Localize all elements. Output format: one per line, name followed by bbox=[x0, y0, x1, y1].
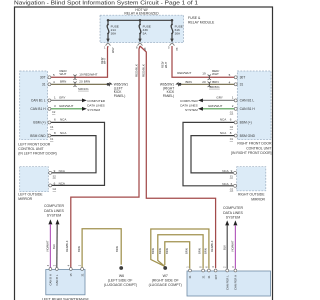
svg-text:FUSE &: FUSE & bbox=[188, 16, 201, 20]
wire NCA BSM GND left loop bbox=[51, 136, 96, 173]
svg-text:SYSTEM: SYSTEM bbox=[87, 108, 100, 112]
wire RED/WHT fuse616 to right door unit 30T bbox=[172, 46, 234, 77]
svg-text:CAN B L: CAN B L bbox=[55, 274, 59, 285]
svg-text:C2: C2 bbox=[52, 110, 56, 114]
wire BLK to right rear sensor bbox=[226, 225, 228, 269]
svg-text:W6: W6 bbox=[119, 274, 124, 278]
svg-text:NCA: NCA bbox=[60, 118, 66, 122]
arrow up VIO/WHT (bottom left) bbox=[48, 219, 52, 224]
svg-text:NCA: NCA bbox=[220, 131, 226, 135]
label GRY 1 (right) bbox=[216, 96, 233, 100]
svg-text:BRN: BRN bbox=[115, 246, 119, 252]
right rear box pin bumps bbox=[189, 269, 237, 272]
svg-text:DATA LINES: DATA LINES bbox=[180, 104, 197, 108]
inline connector on RED/WHT left bbox=[73, 75, 77, 80]
left rear box pin names bbox=[49, 273, 85, 286]
svg-text:A5/8: A5/8 bbox=[111, 48, 115, 54]
svg-text:GRN/WHT: GRN/WHT bbox=[59, 104, 73, 108]
arrow to computer data lines (right, top) bbox=[198, 99, 203, 103]
svg-text:BLK: BLK bbox=[222, 245, 226, 250]
inline connector on RED/WHT right bbox=[208, 75, 212, 80]
wire GRY left CAN B1 L to data-lines arrow bbox=[51, 99, 83, 101]
arrow up BLK (bottom right) bbox=[225, 220, 229, 225]
right rear shortrange radar box bbox=[187, 271, 271, 296]
fuse 214 30A bbox=[107, 20, 109, 39]
wire NCA BSM(+) right loop bbox=[183, 122, 234, 185]
wire RED/BLK pair from fuse 439 (left branch to left rear sensor) bbox=[71, 46, 140, 267]
svg-text:RED/BLK: RED/BLK bbox=[134, 64, 138, 77]
svg-text:BRN: BRN bbox=[151, 248, 155, 254]
svg-text:VIO/WHT: VIO/WHT bbox=[231, 240, 235, 252]
svg-text:[IN RIGHT FRONT DOOR]: [IN RIGHT FRONT DOOR] bbox=[231, 151, 271, 155]
labels 8 NCA (left BSM GND) bbox=[54, 131, 66, 135]
svg-text:SYSTEM: SYSTEM bbox=[226, 215, 240, 219]
fuse 439 5A bbox=[139, 20, 141, 39]
svg-text:CAN B1 H: CAN B1 H bbox=[240, 107, 256, 111]
svg-text:RIGHT FRONT DOOR: RIGHT FRONT DOOR bbox=[237, 142, 272, 146]
left outside mirror box bbox=[20, 167, 49, 192]
wire BRN right splice to right door unit 31 bbox=[181, 83, 234, 85]
wire BLK to left rear sensor bbox=[56, 224, 58, 267]
svg-text:31: 31 bbox=[188, 275, 192, 279]
svg-text:BRN: BRN bbox=[84, 79, 90, 83]
svg-text:RELAY MODULE: RELAY MODULE bbox=[188, 21, 215, 25]
svg-text:(LUGGAGE COMPT): (LUGGAGE COMPT) bbox=[149, 283, 182, 287]
svg-text:RED/WHT: RED/WHT bbox=[84, 72, 98, 76]
svg-text:BRN: BRN bbox=[198, 248, 202, 254]
wire VIO/WHT to left rear sensor bbox=[49, 224, 51, 267]
svg-text:CAN PER H: CAN PER H bbox=[234, 275, 238, 290]
wire BRN right rear sensor inner loop to ground W7 bbox=[165, 242, 190, 269]
fuse 616 arrow bbox=[170, 39, 173, 43]
right front door control unit box bbox=[237, 71, 271, 140]
arrow to computer data lines (left, top) bbox=[82, 99, 87, 103]
ground W7 bbox=[149, 266, 182, 287]
fuse 214 arrow bbox=[106, 39, 109, 43]
svg-text:30A: 30A bbox=[111, 31, 117, 35]
svg-text:MIRROR: MIRROR bbox=[18, 197, 32, 201]
svg-text:31: 31 bbox=[207, 275, 211, 279]
svg-text:RIGHT OUTSIDE: RIGHT OUTSIDE bbox=[238, 193, 265, 197]
svg-text:S30/5X1: S30/5X1 bbox=[209, 85, 220, 89]
svg-text:PANEL): PANEL) bbox=[163, 94, 175, 98]
svg-text:WHT: WHT bbox=[103, 58, 107, 64]
connector pin below fuse 214 bbox=[104, 44, 115, 54]
svg-text:BSM GND: BSM GND bbox=[30, 134, 46, 138]
label right front door control unit bbox=[231, 142, 272, 155]
right mirror pin bumps bbox=[234, 171, 237, 187]
labels 6 NCA (left BSM+) bbox=[54, 118, 66, 122]
svg-text:C4: C4 bbox=[230, 125, 234, 129]
svg-text:RED/BLK: RED/BLK bbox=[210, 240, 214, 252]
label GRN/WHT 2 (right) bbox=[208, 104, 234, 108]
svg-text:31: 31 bbox=[240, 82, 244, 86]
left rear shortrange radar box bbox=[46, 270, 85, 295]
left front door control unit box bbox=[20, 71, 48, 140]
fuse 616 value label bbox=[175, 24, 183, 35]
svg-text:15: 15 bbox=[69, 273, 73, 277]
svg-text:31: 31 bbox=[42, 82, 46, 86]
svg-text:30T: 30T bbox=[214, 274, 218, 279]
arrow to computer data lines (left, bottom) bbox=[82, 107, 87, 111]
right mirror pin labels bbox=[222, 169, 228, 186]
svg-text:BRN: BRN bbox=[77, 246, 81, 252]
fuse 439 arrow bbox=[138, 39, 141, 43]
svg-text:NCA: NCA bbox=[220, 118, 226, 122]
svg-text:BRN: BRN bbox=[184, 248, 188, 254]
connector pin below fuse 616 bbox=[168, 44, 179, 51]
svg-text:G2: G2 bbox=[53, 187, 57, 191]
labels NCA 6 (right BSM+) bbox=[220, 118, 232, 122]
labels RED/WHT 19 RED/WHT 5 (right red row) bbox=[177, 69, 230, 77]
svg-text:G2: G2 bbox=[230, 188, 234, 192]
right outside mirror box bbox=[237, 167, 266, 191]
svg-text:C1: C1 bbox=[50, 137, 54, 141]
ground W6 bbox=[104, 266, 137, 287]
svg-text:COMPUTER: COMPUTER bbox=[223, 206, 244, 210]
text computer data lines system (bottom left) bbox=[44, 204, 65, 217]
svg-text:S30/1X1: S30/1X1 bbox=[78, 87, 89, 91]
svg-text:RELAY A ENERGIZED: RELAY A ENERGIZED bbox=[124, 12, 159, 16]
svg-text:20: 20 bbox=[202, 80, 206, 84]
svg-text:30A: 30A bbox=[175, 31, 181, 35]
wire NCA BSM GND right loop bbox=[191, 136, 234, 173]
text computer data lines system (right mid) bbox=[180, 99, 198, 112]
wire BRN right rear sensor outer loop to ground W7 bbox=[151, 229, 209, 269]
svg-text:GRY: GRY bbox=[216, 96, 222, 100]
fuse 214 value label bbox=[111, 24, 119, 35]
labels 5 RED/WHT 19 RED/WHT (left red row) bbox=[53, 69, 98, 77]
svg-text:GRY: GRY bbox=[59, 96, 65, 100]
wire BRN left rear sensor to ground W6 bbox=[82, 229, 121, 268]
svg-text:31: 31 bbox=[80, 273, 84, 277]
svg-text:19: 19 bbox=[79, 72, 83, 76]
svg-text:S1: S1 bbox=[230, 175, 234, 179]
svg-text:NCA: NCA bbox=[222, 182, 228, 186]
svg-text:CAN B H: CAN B H bbox=[49, 274, 53, 285]
svg-text:RED/BLK: RED/BLK bbox=[65, 240, 69, 252]
svg-text:NCA: NCA bbox=[59, 181, 65, 185]
svg-text:WHT: WHT bbox=[164, 62, 168, 68]
svg-text:WHT: WHT bbox=[212, 72, 219, 76]
arrow up VIO/WHT (bottom right) bbox=[233, 220, 237, 225]
svg-text:G1: G1 bbox=[230, 110, 234, 114]
splice W65/2W1 bbox=[160, 82, 181, 98]
svg-text:NCA: NCA bbox=[222, 169, 228, 173]
svg-text:33: 33 bbox=[175, 48, 179, 51]
left rear box pin bumps bbox=[49, 268, 84, 271]
left rear box pin numbers bbox=[47, 264, 82, 266]
svg-text:CAN B1 L: CAN B1 L bbox=[31, 99, 46, 103]
svg-text:BRN: BRN bbox=[186, 80, 192, 84]
svg-text:Navigation - Blind Spot Inform: Navigation - Blind Spot Information Syst… bbox=[14, 1, 198, 7]
svg-text:RED/BLK: RED/BLK bbox=[142, 64, 146, 77]
wire GRY right CAN B1 L bbox=[202, 99, 234, 101]
wire RED/WHT fuse214 to left door unit pin 30T bbox=[51, 46, 108, 77]
svg-text:CAN B1 H: CAN B1 H bbox=[30, 107, 46, 111]
svg-text:DATA LINES: DATA LINES bbox=[87, 104, 104, 108]
svg-text:VIO/WHT: VIO/WHT bbox=[46, 240, 50, 252]
svg-text:LEFT OUTSIDE: LEFT OUTSIDE bbox=[18, 192, 43, 196]
text computer data lines system (left mid) bbox=[87, 99, 105, 112]
svg-text:C4: C4 bbox=[50, 125, 54, 129]
bus wire inside module bbox=[108, 19, 172, 21]
wire BRN left door unit pin 31 to splice bbox=[51, 83, 107, 85]
svg-text:30T: 30T bbox=[240, 75, 246, 79]
right door unit pin names bbox=[240, 75, 256, 137]
arrow to computer data lines (right, bottom) bbox=[198, 107, 203, 111]
bus junction nodes bbox=[107, 19, 174, 22]
fuse &amp; relay module box bbox=[100, 15, 184, 43]
labels BRN 20 BRN 4 (right brn row) bbox=[186, 80, 231, 85]
svg-text:BRN: BRN bbox=[165, 248, 169, 254]
right rear box pin numbers bbox=[187, 266, 235, 268]
svg-text:SYSTEM: SYSTEM bbox=[185, 108, 198, 112]
inline connector on BRN left bbox=[73, 82, 77, 87]
label right outside mirror bbox=[238, 193, 266, 202]
svg-text:C1: C1 bbox=[230, 137, 234, 141]
svg-text:COMPUTER: COMPUTER bbox=[44, 204, 65, 208]
svg-text:CAN B1 L: CAN B1 L bbox=[240, 99, 255, 103]
svg-text:BRN: BRN bbox=[212, 80, 218, 84]
svg-text:PANEL): PANEL) bbox=[114, 94, 126, 98]
wire GRN/WHT right CAN B1 H bbox=[202, 108, 234, 110]
svg-text:CONTROL UNIT: CONTROL UNIT bbox=[18, 147, 43, 151]
right rear box pin names bbox=[188, 274, 237, 290]
text computer data lines system (bottom right) bbox=[223, 206, 244, 219]
svg-text:BLK: BLK bbox=[52, 244, 56, 249]
svg-text:31: 31 bbox=[201, 275, 205, 279]
svg-text:DATA LINES: DATA LINES bbox=[44, 209, 64, 213]
svg-text:RED/WHT: RED/WHT bbox=[177, 71, 191, 75]
label HOT W/ RELAY A ENERGIZED bbox=[124, 8, 159, 16]
svg-text:NCA: NCA bbox=[59, 169, 65, 173]
wire GRN/WHT left CAN B1 H to data-lines arrow bbox=[51, 108, 83, 110]
left mirror pin bumps bbox=[49, 171, 52, 187]
svg-text:BRN: BRN bbox=[204, 248, 208, 254]
fuse 616 30A bbox=[171, 20, 173, 39]
svg-text:30T: 30T bbox=[40, 75, 46, 79]
inline connector on BRN right bbox=[208, 82, 212, 87]
svg-text:BRN: BRN bbox=[60, 80, 66, 84]
svg-text:BRN: BRN bbox=[158, 248, 162, 254]
svg-text:LEFT FRONT DOOR: LEFT FRONT DOOR bbox=[18, 142, 50, 146]
wire VIO/WHT to right rear sensor bbox=[234, 225, 236, 269]
svg-text:(LUGGAGE COMPT): (LUGGAGE COMPT) bbox=[104, 283, 137, 287]
svg-text:DATA LINES: DATA LINES bbox=[223, 211, 243, 215]
arrow up BLK (bottom left) bbox=[56, 219, 60, 224]
svg-text:NCA: NCA bbox=[60, 131, 66, 135]
svg-text:COMPUTER: COMPUTER bbox=[87, 99, 105, 103]
wire RED/BLK pair from fuse 439 (right branch to right rear sensor) bbox=[140, 46, 216, 268]
svg-text:20: 20 bbox=[79, 79, 83, 83]
left mirror pin labels bbox=[54, 169, 65, 186]
svg-text:S2: S2 bbox=[53, 175, 57, 179]
left door unit pin bumps bbox=[48, 76, 51, 137]
page border frame bbox=[15, 7, 273, 300]
fuse 439 value label bbox=[143, 24, 151, 35]
label left front door control unit bbox=[18, 142, 57, 155]
right door unit pin bumps bbox=[234, 76, 237, 137]
wire BRN right rear sensor mid loop to ground W7 bbox=[158, 235, 203, 269]
svg-text:CAN PER L: CAN PER L bbox=[225, 275, 229, 290]
label left outside mirror bbox=[18, 192, 43, 201]
svg-text:W7: W7 bbox=[163, 274, 168, 278]
svg-text:BSM (+): BSM (+) bbox=[33, 121, 45, 125]
svg-text:GRN/WHT: GRN/WHT bbox=[208, 104, 222, 108]
label 3 GRN/WHT bbox=[54, 104, 73, 108]
right mirror pin numbers bbox=[231, 169, 233, 186]
left door unit pin names bbox=[30, 75, 46, 137]
svg-text:WHT: WHT bbox=[60, 72, 67, 76]
svg-text:SYSTEM: SYSTEM bbox=[47, 213, 61, 217]
svg-text:CONTROL UNIT: CONTROL UNIT bbox=[246, 146, 271, 150]
labels NCA 8 (right BSM GND) bbox=[220, 131, 232, 135]
wire NCA BSM(+) left loop bbox=[51, 122, 105, 185]
label 1 GRY bbox=[54, 96, 65, 100]
labels 4 BRN 20 BRN (left brn row) bbox=[53, 79, 90, 84]
svg-text:BSM GND: BSM GND bbox=[240, 134, 256, 138]
label FUSE & RELAY MODULE bbox=[188, 16, 215, 24]
svg-text:COMPUTER: COMPUTER bbox=[180, 99, 198, 103]
svg-text:RED/: RED/ bbox=[161, 61, 165, 68]
svg-text:(IN LEFT FRONT DOOR): (IN LEFT FRONT DOOR) bbox=[18, 152, 57, 156]
connector pin below fuse 439 bbox=[136, 44, 147, 51]
svg-text:BSM (+): BSM (+) bbox=[240, 121, 252, 125]
svg-text:19: 19 bbox=[202, 72, 206, 76]
splice W65/1W1 bbox=[107, 82, 129, 98]
svg-text:MIRROR: MIRROR bbox=[251, 197, 265, 201]
